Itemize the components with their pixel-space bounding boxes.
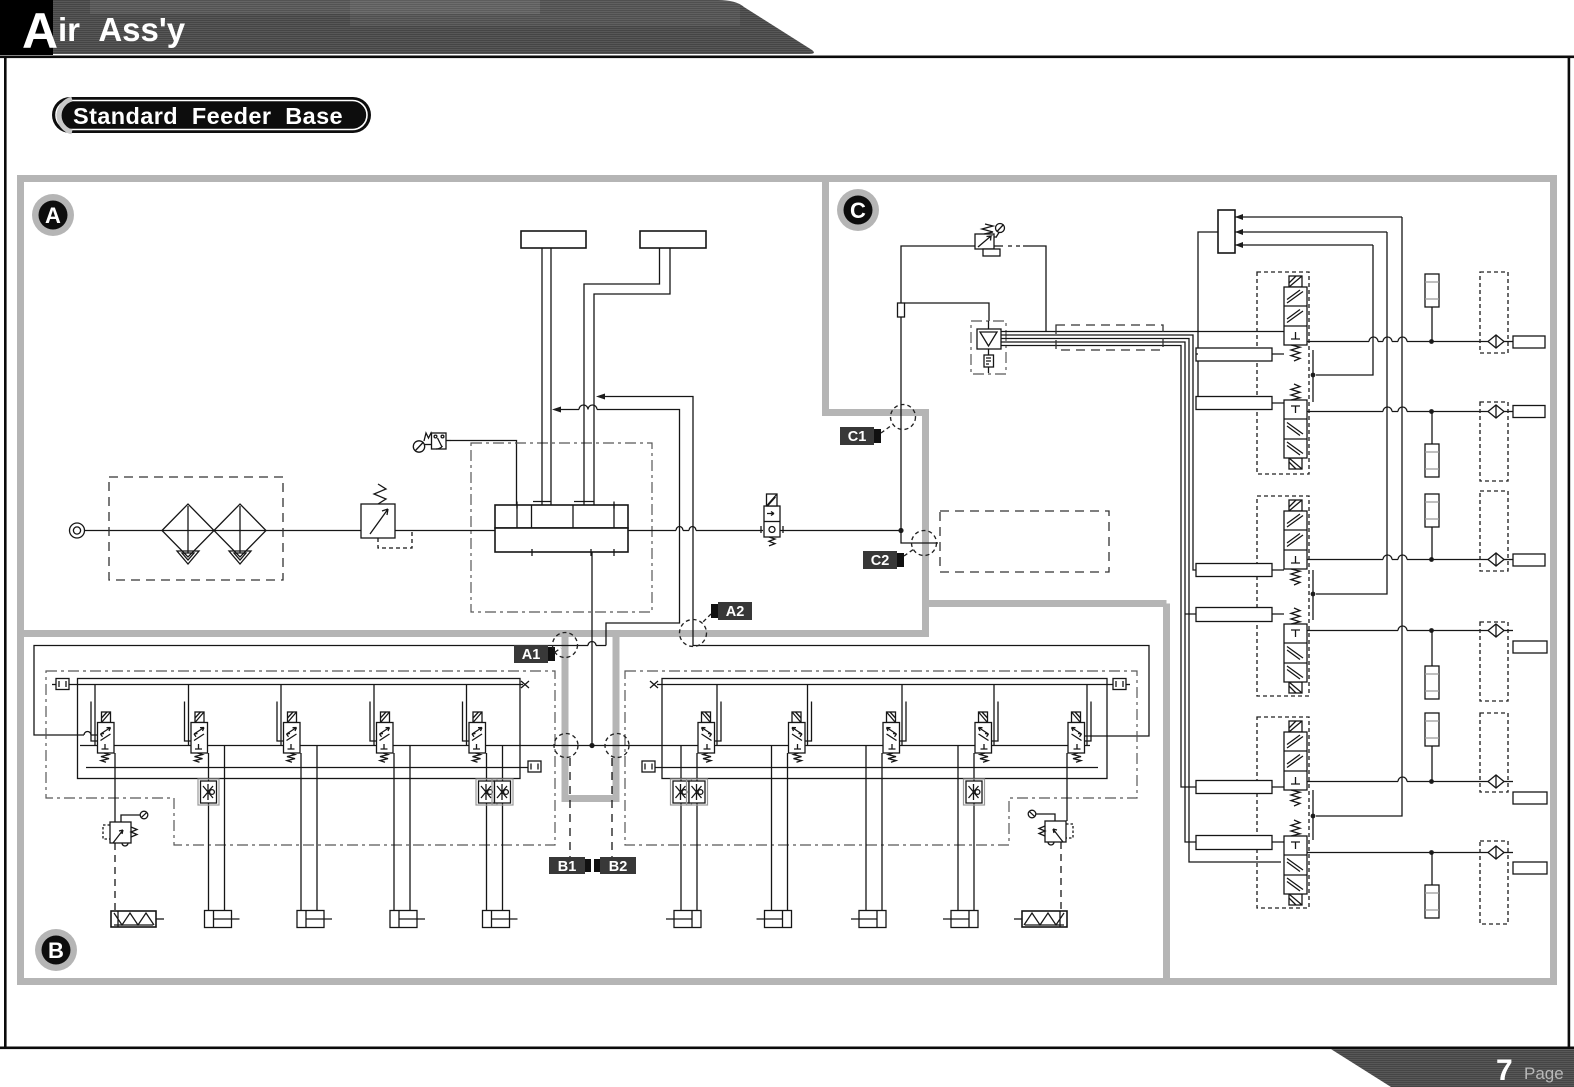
- dashed box around filters: [109, 477, 283, 580]
- arrow A2 feed: [596, 394, 605, 400]
- output line 1: [1307, 341, 1488, 343]
- wire vacuum tube 5 to bar V5: [1001, 346, 1196, 788]
- node pair2 pilot junction: [1311, 592, 1316, 597]
- wire manifold top rect left: [521, 231, 586, 248]
- bottom line extensions with fittings: [86, 767, 528, 769]
- svg-text:B2: B2: [609, 859, 628, 875]
- dashed box pad 4: [1480, 622, 1508, 701]
- wire manifold center outlet down to B: [591, 552, 593, 746]
- vacuum ejector U1: [971, 321, 1006, 374]
- silencer S2: [1425, 444, 1439, 477]
- wire main supply line left: [85, 530, 495, 532]
- dashed box pad 2: [1480, 402, 1508, 481]
- node C2 junction: [898, 528, 903, 533]
- check fitting D6: [1488, 846, 1504, 859]
- dashed boxes around valve pairs: [1257, 272, 1309, 474]
- vacuum pad P6: [1513, 862, 1547, 874]
- wire pilot vertical 2: [1316, 232, 1387, 594]
- dashed box pad 3: [1480, 491, 1508, 571]
- cylinder bar V5: [1196, 781, 1272, 794]
- output line 3: [1307, 559, 1488, 561]
- label C1: [840, 425, 892, 445]
- dashed box valve pair 2: [1257, 496, 1309, 696]
- wire hop at valve B1L pilot: [84, 732, 91, 735]
- node N6 silencer tee: [1429, 850, 1434, 855]
- vacuum pad P4: [1513, 641, 1547, 653]
- wire hops line 3: [1383, 555, 1407, 560]
- valve C-V6: [1284, 820, 1307, 905]
- dashed circle C1: [891, 405, 916, 430]
- check fitting D3: [1488, 553, 1504, 566]
- footer corner band: [1331, 1049, 1574, 1087]
- wire hops main line: [676, 527, 696, 531]
- arrow A1 feed: [552, 407, 561, 413]
- valve unit B2R: [757, 685, 812, 928]
- vacuum pad P1: [1513, 336, 1545, 348]
- node pair1 pilot junction: [1311, 373, 1316, 378]
- wire B supply line: [80, 745, 1090, 747]
- filter F2: [214, 504, 266, 564]
- check fitting D2: [1488, 405, 1504, 418]
- check fitting D5: [1488, 775, 1504, 788]
- gray B right border: [922, 604, 1167, 982]
- valve C-V1: [1284, 276, 1307, 361]
- circle label C: [837, 189, 879, 231]
- wire main line hops over A1/A2 feeds: [628, 530, 763, 532]
- svg-text:B1: B1: [558, 859, 577, 875]
- fitting on C1 drop: [898, 303, 905, 317]
- wire silencer S2 stub: [1431, 412, 1433, 445]
- wire hop line 5: [1398, 777, 1407, 782]
- svg-text:A: A: [22, 3, 58, 59]
- cylinder bar V6: [1196, 836, 1272, 850]
- cylinder bar V1: [1196, 348, 1272, 361]
- dashed box valve pair 3: [1257, 717, 1309, 908]
- header band: [0, 0, 814, 54]
- dashed box right of C2: [940, 511, 1109, 572]
- inlet port: [70, 523, 85, 538]
- wire silencer S3 stub: [1431, 527, 1433, 560]
- regulator RC1: [975, 224, 1005, 257]
- node N3 silencer tee: [1429, 557, 1434, 562]
- wire bottom ext right: [655, 767, 1098, 769]
- wire silencer S6 stub: [1431, 853, 1433, 886]
- circle label A: [32, 194, 74, 236]
- wire vacuum tube 4 to bar V6: [1001, 342, 1196, 842]
- wire vacuum tube 2 to bar V3: [1001, 335, 1196, 570]
- node N1 silencer tee: [1429, 339, 1434, 344]
- header black tab: [0, 0, 53, 55]
- label C2: [863, 549, 914, 569]
- wire to pad 2: [1504, 411, 1513, 413]
- wire pilot vertical 3: [1316, 217, 1402, 816]
- dash-dot box B right half: [625, 671, 1137, 845]
- dashed circle A1: [553, 633, 578, 658]
- svg-text:A2: A2: [726, 604, 745, 620]
- manifold block MF1: [495, 502, 628, 557]
- dashed circle C2: [912, 531, 937, 556]
- silencer S5: [1425, 713, 1439, 746]
- title pill Standard Feeder Base: [52, 97, 371, 133]
- filter F1: [162, 504, 214, 564]
- fitting B right pilot: [1113, 679, 1130, 690]
- fitting B right bottom: [642, 761, 655, 772]
- valve unit B5R: [1014, 685, 1091, 928]
- dashed box pad 1: [1480, 272, 1508, 353]
- silencer S1: [1425, 274, 1439, 307]
- svg-text:A: A: [45, 203, 61, 228]
- exhaust mark B left: [521, 681, 529, 688]
- wire hops A1 feed: [579, 405, 597, 410]
- cylinder bar V4: [1196, 608, 1272, 622]
- wire A1 feed lower (to B left) with hops: [555, 410, 680, 646]
- wire bar stubs: [1185, 354, 1198, 614]
- wire A2 feed upper (to B right): [600, 397, 1149, 737]
- page top border line: [0, 56, 1574, 59]
- wire manifold top rect right: [640, 231, 706, 248]
- wire main line to C junction: [780, 530, 901, 532]
- pressure switch PS1: [413, 433, 516, 505]
- label A2: [702, 602, 752, 623]
- wire to pad 4: [1504, 630, 1513, 632]
- valve unit B5L: [463, 685, 518, 928]
- loop rect B left: [78, 679, 521, 779]
- valve V-A 2/2 on main line: [761, 494, 783, 546]
- silencer S4: [1425, 666, 1439, 699]
- valve C-V2: [1284, 384, 1307, 469]
- wire vacuum bundle 5 lines: [1001, 331, 1284, 333]
- dashed circle A2: [680, 620, 707, 647]
- valve unit B4L: [370, 685, 425, 928]
- wire hop at manifold drop: [588, 642, 596, 646]
- vacuum pad P5: [1513, 792, 1547, 804]
- page side borders: [4, 57, 7, 1048]
- bar to valve connectors: [1272, 354, 1284, 842]
- output line 5: [1307, 781, 1488, 783]
- valve unit B1L: [91, 685, 164, 928]
- svg-text:Standard Feeder Base: Standard Feeder Base: [73, 103, 343, 129]
- svg-text:A1: A1: [522, 647, 541, 663]
- dash-dot box around manifold: [471, 443, 652, 612]
- wire C2 jog to dashed box: [901, 531, 938, 544]
- node B supply tee: [589, 743, 594, 748]
- dashed circle B1 junction: [554, 734, 578, 758]
- dashed box pad 6: [1480, 841, 1508, 924]
- wire left rect down pair: [542, 248, 551, 505]
- wire B1 dashed signal: [569, 758, 571, 857]
- cylinder bar V2: [1196, 397, 1272, 410]
- wire regulator right to bundle feed: [994, 246, 1046, 332]
- svg-text:C2: C2: [871, 553, 890, 569]
- vacuum pad P2: [1513, 406, 1545, 418]
- fitting B left pilot: [52, 679, 69, 690]
- valve unit B3R: [851, 685, 906, 928]
- node N2 silencer tee: [1429, 409, 1434, 414]
- wire right rect down pair with jogs: [584, 248, 660, 505]
- svg-text:C: C: [850, 198, 866, 223]
- wire regulator to C1 drop: [901, 246, 975, 531]
- output line 6: [1307, 852, 1488, 854]
- node N4 silencer tee: [1429, 628, 1434, 633]
- stack pair connectors: [1312, 350, 1314, 840]
- silencer S3: [1425, 494, 1439, 527]
- vacuum pad P3: [1513, 554, 1545, 566]
- dashed box on bundle: [1056, 325, 1163, 350]
- wire A1 horizontal through channel: [34, 646, 606, 736]
- cylinder bar V3: [1196, 564, 1272, 577]
- wire to pad 6: [1504, 852, 1513, 854]
- junction block JB1: [1196, 210, 1402, 403]
- output line 2: [1307, 411, 1488, 413]
- wire hops line 2: [1383, 407, 1407, 412]
- wire to pad 3: [1504, 559, 1513, 561]
- fitting B left bottom: [528, 761, 541, 772]
- wire hops line 1: [1369, 337, 1407, 341]
- node N5 silencer tee: [1429, 779, 1434, 784]
- valve unit B2L: [185, 685, 240, 928]
- svg-text:C1: C1: [848, 429, 867, 445]
- regulator R1: [361, 484, 412, 548]
- valve C-V3: [1284, 500, 1307, 585]
- silencer S6: [1425, 885, 1439, 918]
- page bottom border line: [0, 1047, 1574, 1050]
- svg-text:7: 7: [1496, 1054, 1513, 1087]
- dashed box pad 5: [1480, 713, 1508, 792]
- loop rect B right: [662, 679, 1107, 779]
- valve C-V4: [1284, 608, 1307, 693]
- wire silencer S5 stub: [1431, 746, 1433, 782]
- wire silencer S4 stub: [1431, 631, 1433, 667]
- dashed circle B2 junction: [605, 734, 629, 758]
- label A1: [514, 645, 561, 663]
- wire pilot vertical 1: [1316, 245, 1373, 375]
- svg-text:ir Ass'y: ir Ass'y: [58, 11, 186, 48]
- output line 4: [1307, 630, 1488, 632]
- pilot line B left with end fitting: [69, 684, 523, 686]
- svg-text:B: B: [48, 938, 64, 963]
- wire to pad 1: [1504, 341, 1513, 343]
- wire branch to ejector: [905, 303, 990, 321]
- wire to pad 5: [1504, 781, 1513, 783]
- wire hop line 4: [1398, 626, 1407, 631]
- gray outer panel border: [21, 179, 1554, 982]
- gray C left border: [822, 179, 926, 638]
- circle label B: [35, 929, 77, 971]
- svg-text:Page: Page: [1524, 1064, 1564, 1083]
- check fitting D4: [1488, 624, 1504, 637]
- check fitting D1: [1488, 335, 1504, 348]
- node pair3 pilot junction: [1311, 814, 1316, 819]
- wire silencer S1 stub: [1431, 307, 1433, 342]
- gray channel U between B halves: [562, 634, 620, 799]
- wire right rect down line 2: [594, 248, 670, 505]
- label B2: [594, 857, 636, 875]
- valve C-V5: [1284, 721, 1307, 806]
- exhaust mark B right: [650, 681, 658, 688]
- valve unit B4R: [943, 685, 998, 928]
- wire vacuum tube 3 to valve C-V6: [1001, 339, 1281, 863]
- valve unit B3L: [277, 685, 332, 928]
- dash-dot box B left half: [46, 671, 555, 845]
- valve unit B1R: [666, 685, 721, 928]
- pilot line B right with end fitting: [657, 684, 1113, 686]
- wire B2 dashed signal: [611, 758, 613, 857]
- label B1: [549, 857, 591, 875]
- gray divider A bottom: [21, 630, 926, 637]
